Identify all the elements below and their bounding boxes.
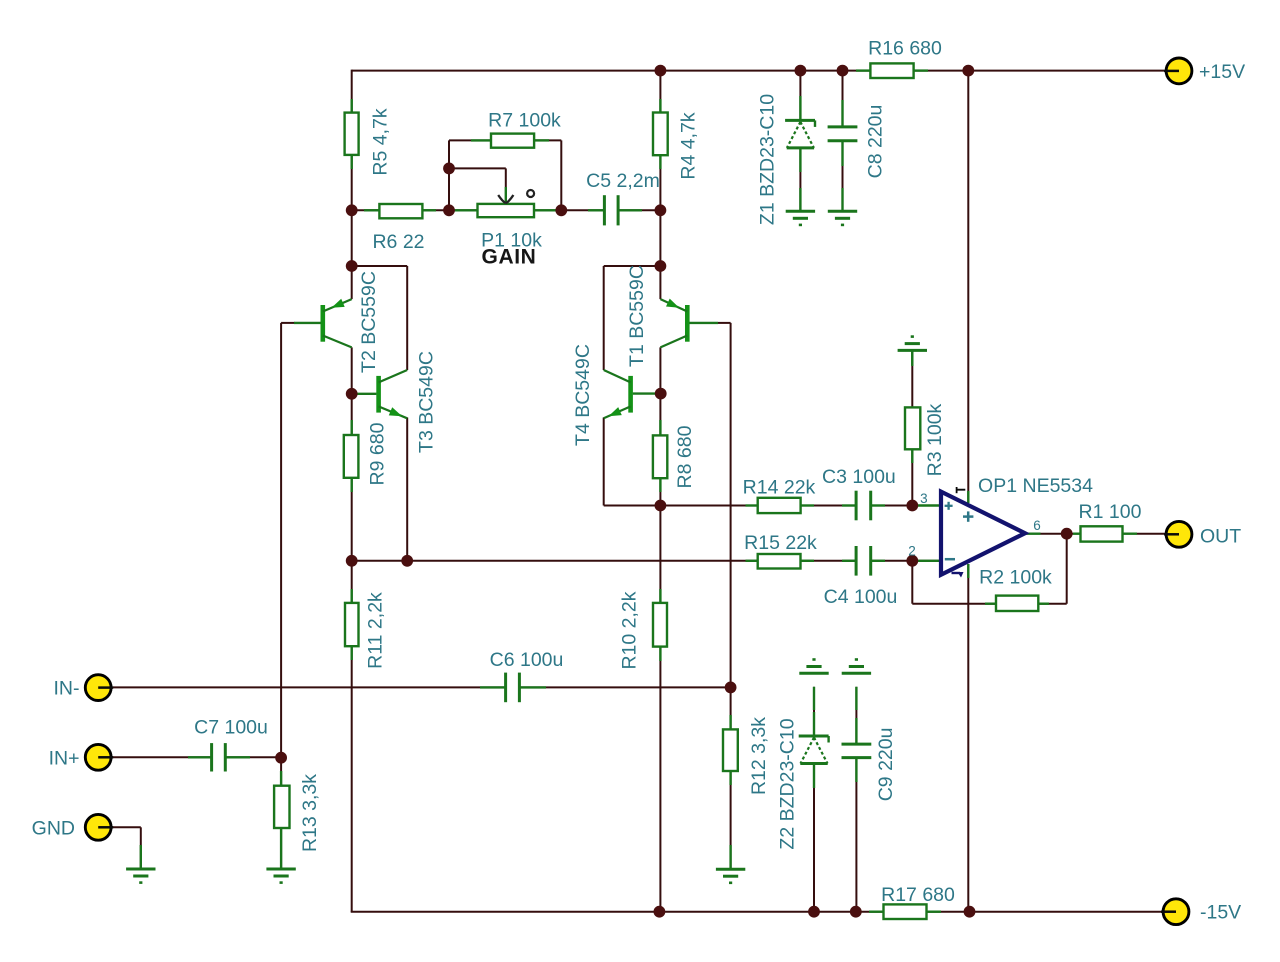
label GAIN (482, 246, 537, 269)
label R5 4,7k (370, 108, 392, 175)
lead C8 (841, 100, 843, 166)
wire +15V top rail (352, 70, 1164, 72)
lead R14 (746, 504, 815, 506)
lead C5 (588, 209, 642, 211)
svg-text:T3 BC549C: T3 BC549C (416, 351, 438, 453)
wire left column x=351.7 (R5/T2/R9/R11 chain) (351, 70, 353, 912)
svg-text:R4 4,7k: R4 4,7k (678, 112, 700, 179)
label OUT (1200, 526, 1241, 548)
svg-text:GAIN: GAIN (482, 246, 537, 269)
op-amp pin7 tick (957, 487, 966, 493)
lead ground R13 (280, 843, 282, 869)
label R14 22k (743, 476, 816, 498)
wire GND terminal lead (113, 827, 141, 869)
label pin 6 (1033, 518, 1041, 533)
svg-text:R5 4,7k: R5 4,7k (370, 108, 392, 175)
terminal IN+ (85, 744, 113, 770)
wire P1 to C5 to R4 column (534, 209, 660, 211)
label C6 100u (490, 649, 564, 671)
svg-text:R7 100k: R7 100k (488, 109, 561, 131)
svg-text:OUT: OUT (1200, 526, 1241, 548)
svg-text:C3 100u: C3 100u (822, 466, 896, 488)
label T2 BC559C (358, 271, 380, 373)
wire R7 loop right (534, 140, 561, 210)
svg-text:R12 3,3k: R12 3,3k (748, 717, 770, 795)
resistor R9 680 (344, 435, 359, 478)
terminal +15V (1164, 58, 1192, 84)
label T1 BC559C (626, 265, 648, 367)
resistor R10 2,2k (653, 603, 667, 647)
svg-text:R13 3,3k: R13 3,3k (299, 774, 321, 852)
wire C9 branch (855, 687, 857, 912)
lead R1 (1073, 533, 1137, 535)
label OP1 NE5534 (978, 475, 1093, 497)
lead C3 (842, 504, 885, 506)
label R4 4,7k (678, 112, 700, 179)
svg-text:R16 680: R16 680 (868, 38, 942, 60)
wire R7 loop left (449, 140, 491, 210)
label R10 2,2k (618, 591, 640, 669)
label R2 100k (979, 567, 1052, 589)
op-amp plus input mark (945, 502, 953, 510)
wire feedback to output (1038, 534, 1066, 604)
wire feedback from pin2 (912, 561, 996, 604)
lead R3 (911, 351, 913, 463)
lead R15 (746, 560, 815, 562)
transistor T4 BC549C (604, 370, 661, 418)
op-amp U1 NE5534 triangle (941, 492, 1025, 575)
resistor R13 3,3k (274, 786, 289, 828)
lead Z1 (799, 96, 801, 172)
transistor T3 BC549C (352, 370, 408, 418)
label R9 680 (367, 422, 389, 485)
label GND (32, 818, 75, 840)
resistor R8 680 (653, 435, 667, 478)
svg-text:C7 100u: C7 100u (194, 717, 268, 739)
wire Z2 branch (813, 687, 815, 912)
label +15V (1199, 61, 1245, 83)
label R17 680 (881, 884, 955, 906)
label C4 100u (824, 586, 898, 608)
wire IN- row y=687.4 (113, 686, 731, 688)
wire P1 wiper feed (449, 168, 506, 187)
svg-text:R3 100k: R3 100k (924, 403, 946, 476)
wire right column x=660.4 (R4/T1/R8/R10 chain) (659, 71, 661, 912)
lead op-amp pin2 (912, 560, 941, 562)
terminal -15V (1161, 899, 1189, 925)
op-amp minus input mark (945, 558, 955, 561)
label C8 220u (865, 105, 887, 179)
resistor R14 22k (758, 498, 801, 513)
svg-text:R8 680: R8 680 (674, 425, 696, 488)
label C7 100u (194, 717, 268, 739)
label R12 3,3k (748, 717, 770, 795)
ground Z1 (786, 211, 815, 225)
lead R6 (364, 209, 436, 211)
op-amp plus power mark (963, 511, 973, 521)
wire op-amp pin4 supply (967, 564, 969, 912)
lead R12 (729, 715, 731, 785)
wire C8 branch (842, 71, 844, 212)
inverted ground C9 (842, 660, 871, 674)
transistor T2 BC559C (294, 299, 352, 348)
resistor R17 680 (884, 904, 927, 919)
lead ground R12 (729, 845, 731, 869)
svg-text:R11 2,2k: R11 2,2k (365, 592, 387, 669)
lead C4 (842, 560, 885, 562)
lead R5 (351, 99, 353, 169)
lead ground C8 (841, 188, 843, 211)
label Z2 BZD23-C10 (777, 718, 799, 849)
wire R12 to ground (730, 687, 732, 869)
capacitor C5 2,2m (604, 195, 618, 225)
label C3 100u (822, 466, 896, 488)
svg-text:R1 100: R1 100 (1079, 501, 1142, 523)
lead R10 (659, 589, 661, 661)
svg-text:R6 22: R6 22 (372, 231, 424, 253)
potentiometer P1 10k (478, 187, 535, 217)
wire T3 collector loop (351, 266, 408, 561)
svg-text:Z1 BZD23-C10: Z1 BZD23-C10 (757, 94, 779, 225)
ground C8 (828, 211, 857, 225)
inverted ground R3 (898, 337, 927, 351)
svg-text:C6 100u: C6 100u (490, 649, 564, 671)
wire node row y=505.5 to op-amp pin3 (604, 505, 941, 507)
label T4 BC549C (572, 344, 594, 446)
resistor R5 4,7k (345, 113, 359, 155)
svg-text:C8 220u: C8 220u (865, 105, 887, 179)
label R11 2,2k (365, 592, 387, 669)
svg-text:R2 100k: R2 100k (979, 567, 1052, 589)
wire T4 collector loop (604, 266, 661, 370)
svg-text:3: 3 (920, 491, 928, 506)
lead C6 (480, 686, 546, 688)
svg-text:C5 2,2m: C5 2,2m (586, 170, 660, 192)
capacitor C6 100u (506, 673, 520, 703)
lead C9 (855, 718, 857, 782)
svg-text:T1 BC559C: T1 BC559C (626, 265, 648, 367)
zener diode Z2 BZD23-C10 (799, 736, 829, 764)
wire bottom -15V rail (351, 911, 1162, 913)
svg-text:IN-: IN- (54, 678, 80, 700)
svg-text:Z2 BZD23-C10: Z2 BZD23-C10 (777, 718, 799, 849)
resistor R16 680 (870, 63, 913, 78)
wire R3 branch (911, 365, 913, 506)
lead R13 (280, 771, 282, 843)
ground R12 (716, 869, 745, 883)
svg-text:IN+: IN+ (49, 748, 80, 770)
lead R16 (856, 69, 928, 71)
label R7 100k (488, 109, 561, 131)
label R15 22k (744, 532, 817, 554)
label R6 22 (372, 231, 424, 253)
resistor R7 100k (491, 134, 534, 148)
capacitor C4 100u (856, 546, 871, 576)
label pin 3 (920, 491, 928, 506)
label P1 10k (481, 229, 542, 251)
wire R13 to ground (280, 758, 282, 869)
terminal OUT (1164, 521, 1192, 547)
svg-text:C4 100u: C4 100u (824, 586, 898, 608)
label IN- (54, 678, 80, 700)
lead P1 (453, 209, 556, 211)
lead R8 (659, 420, 661, 492)
wire R6 to P1 node (352, 209, 478, 211)
label R8 680 (674, 425, 696, 488)
capacitor C7 100u (212, 743, 226, 771)
lead Z2 (813, 712, 815, 788)
svg-text:R10 2,2k: R10 2,2k (618, 591, 640, 669)
lead C7 (188, 756, 250, 758)
lead op-amp pin4 (967, 564, 969, 578)
svg-text:GND: GND (32, 818, 75, 840)
lead ground GND (140, 845, 142, 869)
lead R17 (869, 911, 941, 913)
label -15V (1200, 902, 1241, 924)
wire node row y=560.8 to op-amp pin2 (352, 560, 941, 562)
svg-text:2: 2 (908, 543, 916, 558)
label IN+ (49, 748, 80, 770)
resistor R1 100 (1081, 526, 1123, 541)
lead R7 (471, 139, 549, 141)
resistor R4 4,7k (653, 113, 668, 156)
wire T2 base column x=281.1 (281, 323, 295, 758)
lead R9 (351, 420, 353, 492)
resistor R3 100k (905, 407, 920, 449)
terminal IN- (85, 675, 113, 701)
label Z1 BZD23-C10 (757, 94, 779, 225)
resistor R11 2,2k (345, 603, 359, 646)
lead R2 (985, 603, 1049, 605)
lead op-amp output (1025, 533, 1041, 535)
wire T1 base column x=730.6 (718, 323, 731, 688)
ground R13 (266, 869, 295, 883)
wire T4 emitter down (603, 418, 605, 506)
label R13 3,3k (299, 774, 321, 852)
svg-text:R9 680: R9 680 (367, 422, 389, 485)
terminal GND (85, 814, 113, 840)
wire Z1 branch (799, 71, 801, 212)
lead op-amp pin3 (912, 504, 941, 506)
label T3 BC549C (416, 351, 438, 453)
ground GND terminal (126, 869, 155, 883)
svg-text:R17 680: R17 680 (881, 884, 955, 906)
lead ground Z1 (799, 188, 801, 211)
inverted ground Z2 (799, 660, 828, 674)
transistor T1 BC559C (660, 299, 718, 348)
resistor R2 100k (996, 596, 1038, 611)
svg-text:6: 6 (1033, 518, 1041, 533)
svg-text:R15 22k: R15 22k (744, 532, 817, 554)
svg-text:C9 220u: C9 220u (875, 728, 897, 802)
resistor R6 22 (379, 204, 422, 218)
wire op-amp pin7 supply (967, 71, 969, 503)
capacitor C8 220u (828, 127, 858, 141)
svg-text:T4 BC549C: T4 BC549C (572, 344, 594, 446)
lead op-amp pin7 (967, 491, 969, 503)
lead iground R3 (911, 351, 913, 365)
label C9 220u (875, 728, 897, 802)
capacitor C3 100u (856, 491, 871, 521)
label pin 2 (908, 543, 916, 558)
label R3 100k (924, 403, 946, 476)
svg-text:OP1 NE5534: OP1 NE5534 (978, 475, 1093, 497)
lead R4 (659, 99, 661, 169)
resistor R12 3,3k (723, 729, 738, 771)
capacitor C9 220u (842, 744, 872, 758)
wire IN+ row y=757.3 (113, 756, 281, 758)
svg-text:R14 22k: R14 22k (743, 476, 816, 498)
label R1 100 (1079, 501, 1142, 523)
svg-text:T2 BC559C: T2 BC559C (358, 271, 380, 373)
label R16 680 (868, 38, 942, 60)
resistor R15 22k (758, 554, 801, 569)
svg-text:-15V: -15V (1200, 902, 1241, 924)
lead iground Z2 (813, 687, 815, 710)
op-amp pin4 tick (952, 572, 964, 578)
label C5 2,2m (586, 170, 660, 192)
junction dots (all nodes) (275, 65, 1072, 918)
wire op-amp output row (1041, 533, 1166, 535)
lead R11 (351, 589, 353, 660)
zener diode Z1 BZD23-C10 (785, 120, 815, 147)
lead iground C9 (855, 687, 857, 710)
svg-text:+15V: +15V (1199, 61, 1245, 83)
